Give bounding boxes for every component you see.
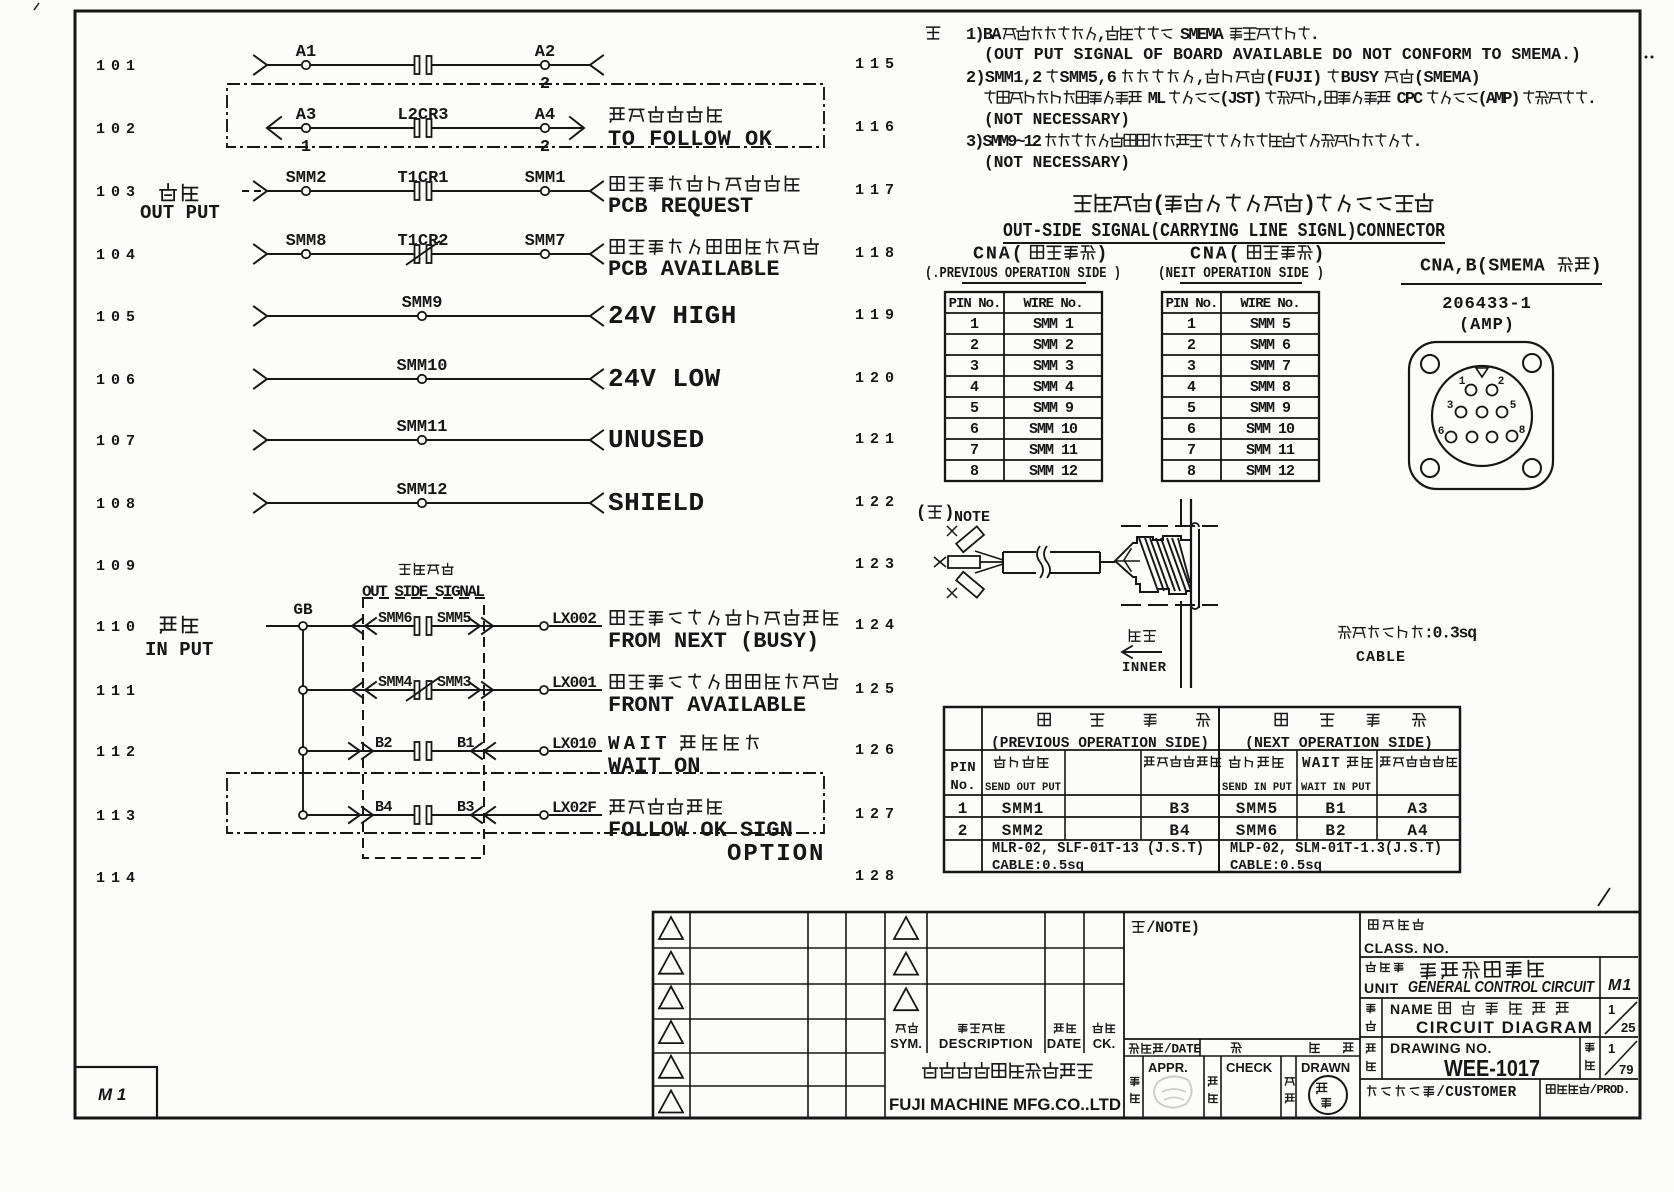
svg-text:FRONT AVAILABLE: FRONT AVAILABLE xyxy=(608,693,806,718)
svg-text:SMM 5: SMM 5 xyxy=(1250,316,1291,333)
svg-text:T1CR1: T1CR1 xyxy=(397,169,448,188)
svg-text:1 2 0: 1 2 0 xyxy=(855,370,894,387)
svg-text:WEE-1017: WEE-1017 xyxy=(1444,1055,1540,1081)
svg-text:UNIT: UNIT xyxy=(1364,980,1399,996)
connector 206433-1 body xyxy=(1409,342,1553,489)
heading CNA next xyxy=(1158,243,1326,283)
terminal SMM8 xyxy=(286,232,327,258)
label PCB REQUEST xyxy=(608,176,799,219)
svg-text:7: 7 xyxy=(1187,442,1196,459)
svg-text:7: 7 xyxy=(970,442,979,459)
svg-text:PIN No.: PIN No. xyxy=(1166,296,1218,312)
svg-text:A3: A3 xyxy=(1407,800,1428,818)
cable cone xyxy=(1115,543,1140,577)
svg-text:6: 6 xyxy=(1438,426,1445,438)
svg-text:CABLE:0.5sq: CABLE:0.5sq xyxy=(1230,858,1322,874)
svg-text:3)SMM9~12: 3)SMM9~12 xyxy=(966,133,1042,152)
svg-text:2: 2 xyxy=(1498,376,1505,388)
svg-text:(AMP): (AMP) xyxy=(1478,90,1519,109)
terminal A3 pin 1 xyxy=(296,106,316,157)
note 1 japanese xyxy=(966,26,1318,45)
approval stamps row xyxy=(1131,1056,1350,1118)
svg-text:(AMP): (AMP) xyxy=(1459,316,1515,335)
svg-text:(NEIT OPERATION SIDE ): (NEIT OPERATION SIDE ) xyxy=(1158,265,1324,282)
heading CNA previous xyxy=(925,243,1121,283)
terminal LX02F xyxy=(540,799,596,819)
stray mark xyxy=(1598,888,1610,906)
svg-text:1 1 4: 1 1 4 xyxy=(96,870,135,887)
revision table left xyxy=(653,912,885,1118)
note label (cable) xyxy=(916,505,990,527)
svg-text:1 1 8: 1 1 8 xyxy=(855,245,894,262)
out side signal dashed box xyxy=(363,598,484,858)
svg-text:2: 2 xyxy=(970,337,979,354)
svg-text:DESCRIPTION: DESCRIPTION xyxy=(939,1036,1033,1051)
svg-text:1 2 1: 1 2 1 xyxy=(855,431,894,448)
contact B2/B1 xyxy=(375,735,475,760)
wire row 107 xyxy=(254,431,603,450)
svg-text:SMM2: SMM2 xyxy=(286,169,327,188)
svg-text:,: , xyxy=(1097,26,1105,45)
svg-text:FROM NEXT (BUSY): FROM NEXT (BUSY) xyxy=(608,629,819,654)
svg-text:1 1 1: 1 1 1 xyxy=(96,683,135,700)
terminal SMM1 xyxy=(525,169,566,195)
svg-text:CABLE: CABLE xyxy=(1356,649,1406,666)
wire row 104 xyxy=(254,245,603,264)
heading CNA,B SMEMA xyxy=(1401,255,1602,284)
svg-text:1: 1 xyxy=(1459,376,1466,388)
svg-text:2: 2 xyxy=(540,138,550,157)
wire row 113 xyxy=(303,814,602,816)
svg-text:WAIT IN PUT: WAIT IN PUT xyxy=(1301,782,1371,794)
svg-text:(PREVIOUS OPERATION SIDE): (PREVIOUS OPERATION SIDE) xyxy=(991,735,1209,752)
bus node (row 113) xyxy=(299,811,307,819)
arrow left (row 102) xyxy=(267,117,281,139)
svg-text:PIN No.: PIN No. xyxy=(949,296,1001,312)
svg-text:GB: GB xyxy=(293,601,313,619)
terminal SMM7 xyxy=(525,232,566,258)
svg-text:1 1 9: 1 1 9 xyxy=(855,307,894,324)
svg-text:WAIT: WAIT xyxy=(608,733,671,755)
label INNER xyxy=(1122,630,1167,676)
table previous/next operation side xyxy=(944,707,1460,872)
label FROM NEXT (BUSY) xyxy=(608,610,838,654)
svg-text:SMM 9: SMM 9 xyxy=(1250,400,1291,417)
svg-text:1 0 1: 1 0 1 xyxy=(96,58,135,75)
svg-text:SMM 8: SMM 8 xyxy=(1250,379,1291,396)
label TO FOLLOW OK xyxy=(608,107,773,152)
svg-text:1 1 3: 1 1 3 xyxy=(96,808,135,825)
svg-text:OUT-SIDE SIGNAL(CARRYING LINE: OUT-SIDE SIGNAL(CARRYING LINE SIGNL)CONN… xyxy=(1003,220,1446,242)
svg-text:SYM.: SYM. xyxy=(890,1036,922,1051)
svg-text:SMM5,6: SMM5,6 xyxy=(1060,69,1117,88)
svg-text:SMM11: SMM11 xyxy=(396,418,447,437)
revision triangles left xyxy=(659,917,683,1113)
svg-text:PCB REQUEST: PCB REQUEST xyxy=(608,194,753,219)
svg-text:OPTION: OPTION xyxy=(727,841,825,868)
terminal SMM11 xyxy=(396,418,447,444)
bus node (row 110) xyxy=(299,622,307,630)
svg-text:1 2 8: 1 2 8 xyxy=(855,868,894,885)
svg-text:UNUSED: UNUSED xyxy=(608,425,705,455)
svg-text:5: 5 xyxy=(1510,400,1517,412)
stray pencil mark top-left xyxy=(34,3,39,10)
svg-text::0.3sq: :0.3sq xyxy=(1424,624,1476,643)
label cable 0.3sq xyxy=(1339,624,1477,666)
arrow right (row 102) xyxy=(570,117,584,139)
svg-text:SMM4: SMM4 xyxy=(378,674,413,691)
svg-text:SMM 7: SMM 7 xyxy=(1250,358,1290,375)
svg-text:DATE: DATE xyxy=(1047,1036,1082,1051)
svg-text:1 0 6: 1 0 6 xyxy=(96,372,135,389)
stamp drawn (hanko) xyxy=(1309,1076,1347,1114)
svg-text:CHECK: CHECK xyxy=(1226,1060,1273,1075)
svg-text:1 1 5: 1 1 5 xyxy=(855,56,894,73)
cable body xyxy=(1003,546,1115,578)
svg-text:SMM 11: SMM 11 xyxy=(1029,442,1078,459)
svg-text:B4: B4 xyxy=(1169,822,1190,840)
svg-text:CNA(: CNA( xyxy=(1190,243,1242,264)
svg-text:SMM6: SMM6 xyxy=(378,610,413,627)
svg-text:OUT SIDE SIGNAL: OUT SIDE SIGNAL xyxy=(362,583,484,601)
svg-text:8: 8 xyxy=(970,463,979,480)
node GB and vertical bus xyxy=(266,601,313,815)
svg-text:4: 4 xyxy=(1187,379,1196,396)
svg-text:SMM 11: SMM 11 xyxy=(1246,442,1295,459)
svg-text:B3: B3 xyxy=(457,799,475,816)
svg-text:A4: A4 xyxy=(535,106,555,125)
svg-text:CLASS. NO.: CLASS. NO. xyxy=(1364,940,1449,956)
svg-text:.: . xyxy=(1413,133,1421,152)
terminal A4 pin 2 xyxy=(535,106,555,157)
svg-text:/NOTE): /NOTE) xyxy=(1146,919,1199,937)
chevrons out (row 111) xyxy=(352,682,493,698)
svg-text:LX001: LX001 xyxy=(552,674,596,692)
svg-text:MLR-02, SLF-01T-13 (J.S.T): MLR-02, SLF-01T-13 (J.S.T) xyxy=(992,840,1204,857)
svg-text:CIRCUIT DIAGRAM: CIRCUIT DIAGRAM xyxy=(1416,1018,1593,1037)
svg-text:SMM 10: SMM 10 xyxy=(1246,421,1295,438)
revision triangles right xyxy=(894,917,918,1010)
svg-text:M 1: M 1 xyxy=(98,1085,126,1104)
panel wall xyxy=(1121,499,1218,688)
contact T1CR2 (NC) xyxy=(397,232,448,265)
label FRONT AVAILABLE xyxy=(608,674,838,718)
svg-text:B1: B1 xyxy=(1325,800,1346,818)
svg-text:1 2 7: 1 2 7 xyxy=(855,806,893,823)
svg-text:B4: B4 xyxy=(375,799,393,816)
svg-text:B3: B3 xyxy=(1169,800,1190,818)
svg-text:CABLE:0.5sq: CABLE:0.5sq xyxy=(992,858,1084,874)
svg-text:PCB AVAILABLE: PCB AVAILABLE xyxy=(608,257,780,282)
label PCB AVAILABLE xyxy=(608,239,818,282)
svg-text:5: 5 xyxy=(970,400,979,417)
svg-text:LX010: LX010 xyxy=(552,735,596,753)
svg-text:1: 1 xyxy=(301,138,311,157)
terminal LX010 xyxy=(540,735,596,755)
svg-text:SMM 10: SMM 10 xyxy=(1029,421,1078,438)
svg-text:1: 1 xyxy=(970,316,979,333)
svg-text:SMM9: SMM9 xyxy=(402,294,443,313)
svg-text:SMM7: SMM7 xyxy=(525,232,566,251)
svg-text:8: 8 xyxy=(1519,425,1526,437)
svg-text:.: . xyxy=(1310,26,1318,45)
terminal SMM12 xyxy=(396,481,447,507)
svg-text:NOTE: NOTE xyxy=(954,509,990,526)
svg-text:(NOT NECESSARY): (NOT NECESSARY) xyxy=(984,111,1130,130)
svg-text:1 0 7: 1 0 7 xyxy=(96,433,134,450)
cable crimp terminals xyxy=(934,526,1003,598)
svg-text:INNER: INNER xyxy=(1122,660,1167,676)
bus node (row 112) xyxy=(299,747,307,755)
svg-text:4: 4 xyxy=(970,379,979,396)
svg-text:3: 3 xyxy=(1187,358,1196,375)
svg-text:(OUT PUT SIGNAL OF BOARD AVAIL: (OUT PUT SIGNAL OF BOARD AVAILABLE DO NO… xyxy=(984,46,1581,65)
terminal LX001 xyxy=(540,674,596,694)
svg-text:SMM10: SMM10 xyxy=(396,357,447,376)
wire row 110 xyxy=(303,625,602,627)
company name xyxy=(889,1063,1121,1114)
svg-text:SMM 12: SMM 12 xyxy=(1246,463,1295,480)
svg-text:LX002: LX002 xyxy=(552,610,596,628)
drawing no row xyxy=(1360,1037,1638,1081)
table CNA previous side pin/wire xyxy=(945,292,1102,481)
svg-text:SEND IN PUT: SEND IN PUT xyxy=(1222,782,1292,794)
option dash-dot box (TO FOLLOW OK) xyxy=(227,84,824,147)
class no box xyxy=(1360,912,1638,1118)
svg-text:DRAWING NO.: DRAWING NO. xyxy=(1390,1040,1492,1056)
svg-text:FUJI MACHINE MFG.CO..LTD: FUJI MACHINE MFG.CO..LTD xyxy=(889,1095,1121,1114)
date row xyxy=(1124,1039,1360,1057)
svg-text:1 0 4: 1 0 4 xyxy=(96,247,135,264)
terminal SMM10 xyxy=(396,357,447,383)
svg-text:SMM12: SMM12 xyxy=(396,481,447,500)
svg-text:1 1 7: 1 1 7 xyxy=(855,182,893,199)
wire row 106 xyxy=(254,370,603,389)
wire row 102 (bidirectional) xyxy=(267,127,584,129)
note 2 japanese line 1 xyxy=(966,69,1480,88)
svg-text:PIN: PIN xyxy=(950,760,975,776)
label IN PUT (nyuryoku) xyxy=(145,617,213,661)
label OPTION xyxy=(727,841,825,868)
svg-text:SMM5: SMM5 xyxy=(437,610,472,627)
svg-text:A4: A4 xyxy=(1407,822,1428,840)
svg-text:1 1 2: 1 1 2 xyxy=(96,744,135,761)
title block outer xyxy=(653,912,1640,1118)
terminal SMM2 xyxy=(286,169,327,195)
svg-text:SMEMA: SMEMA xyxy=(1180,26,1225,45)
svg-text:SMM 9: SMM 9 xyxy=(1033,400,1074,417)
svg-text:(NEXT OPERATION SIDE): (NEXT OPERATION SIDE) xyxy=(1245,735,1433,752)
stamp appr (faint) xyxy=(1154,1076,1192,1107)
connector 206433-1 (AMP) label xyxy=(1442,295,1532,335)
svg-text:LX02F: LX02F xyxy=(552,799,596,817)
svg-text:1 0 8: 1 0 8 xyxy=(96,496,135,513)
svg-text:SMM2: SMM2 xyxy=(1002,822,1044,840)
stray dots xyxy=(1645,56,1654,59)
svg-text:1 2 5: 1 2 5 xyxy=(855,681,894,698)
svg-text:24V HIGH: 24V HIGH xyxy=(608,301,737,331)
svg-text:SMM8: SMM8 xyxy=(286,232,327,251)
svg-text:SMM3: SMM3 xyxy=(437,674,472,691)
wire row 103 xyxy=(242,182,603,201)
chevrons in (row 113) xyxy=(349,807,495,823)
svg-text:CNA(: CNA( xyxy=(973,243,1025,264)
svg-text:M1: M1 xyxy=(1608,977,1632,994)
option dash-dot box (FOLLOW OK SIGN) xyxy=(227,773,824,833)
svg-text:24V LOW: 24V LOW xyxy=(608,364,721,394)
svg-text:A1: A1 xyxy=(296,43,316,62)
label OUT SIDE SIGNAL xyxy=(362,563,484,601)
svg-text:5: 5 xyxy=(1187,400,1196,417)
contact SMM6/SMM5 xyxy=(378,610,472,635)
note heading mark xyxy=(927,27,940,39)
svg-text:206433-1: 206433-1 xyxy=(1442,295,1532,314)
svg-text:(NOT NECESSARY): (NOT NECESSARY) xyxy=(984,154,1130,173)
svg-text:2)SMM1,2: 2)SMM1,2 xyxy=(966,69,1042,88)
heading connector detail japanese xyxy=(1074,192,1432,218)
svg-text:,: , xyxy=(1196,69,1205,88)
connector pins 1-8 xyxy=(1438,376,1526,443)
bus node (row 111) xyxy=(299,686,307,694)
svg-text:WIRE No.: WIRE No. xyxy=(1240,296,1299,312)
svg-text:1: 1 xyxy=(958,800,969,818)
svg-text:1 1 6: 1 1 6 xyxy=(855,119,894,136)
wire row 105 xyxy=(254,307,603,326)
table CNA next side pin/wire xyxy=(1162,292,1319,481)
table footer connector types xyxy=(992,840,1442,874)
revision header row xyxy=(890,1023,1115,1051)
line numbers 101-114 xyxy=(96,58,135,887)
svg-text:1 2 3: 1 2 3 xyxy=(855,556,894,573)
svg-text:CNA,B(SMEMA: CNA,B(SMEMA xyxy=(1420,255,1546,276)
svg-text:B2: B2 xyxy=(1325,822,1346,840)
chevrons out (row 110) xyxy=(352,618,493,634)
svg-text:B2: B2 xyxy=(375,735,393,752)
label UNUSED xyxy=(608,425,705,455)
svg-text:CPC: CPC xyxy=(1397,90,1423,109)
contact L2CR3 xyxy=(397,106,448,137)
contact B4/B3 xyxy=(375,799,475,824)
svg-text:(JST): (JST) xyxy=(1219,90,1260,109)
svg-text:SHIELD: SHIELD xyxy=(608,488,705,518)
terminal A2 pin 2 xyxy=(535,43,555,94)
cable strain relief boot xyxy=(1133,536,1191,594)
svg-text:SMM6: SMM6 xyxy=(1236,822,1278,840)
note 2 english xyxy=(984,111,1130,130)
svg-text:TO FOLLOW OK: TO FOLLOW OK xyxy=(608,127,773,152)
note 2 japanese line 2 xyxy=(985,90,1595,109)
contact (row 101) xyxy=(415,56,432,74)
svg-text:SMM1: SMM1 xyxy=(1002,800,1044,818)
svg-text:DRAWN: DRAWN xyxy=(1301,1060,1350,1075)
svg-text:SEND OUT PUT: SEND OUT PUT xyxy=(985,782,1061,794)
label FOLLOW OK SIGN xyxy=(608,799,793,843)
table headers japanese xyxy=(950,714,1456,795)
svg-text:OUT PUT: OUT PUT xyxy=(140,202,220,224)
svg-text:WIRE No.: WIRE No. xyxy=(1023,296,1082,312)
svg-text:2: 2 xyxy=(1187,337,1196,354)
svg-text:SMM 1: SMM 1 xyxy=(1033,316,1074,333)
customer row xyxy=(1368,1079,1630,1118)
svg-text:3: 3 xyxy=(1447,400,1454,412)
terminal SMM9 xyxy=(402,294,443,320)
contact SMM4/SMM3 xyxy=(378,674,472,701)
note 1 english xyxy=(984,46,1581,65)
svg-text:SMM 4: SMM 4 xyxy=(1033,379,1074,396)
svg-text:WAIT: WAIT xyxy=(1302,756,1341,772)
svg-text:ML: ML xyxy=(1148,90,1166,109)
svg-text:1 2 4: 1 2 4 xyxy=(855,617,894,634)
svg-text:WAIT ON: WAIT ON xyxy=(608,754,700,779)
label WAIT ON xyxy=(608,733,758,779)
label OUT PUT (shutsuryoku) xyxy=(140,184,220,224)
svg-text:SMM1: SMM1 xyxy=(525,169,566,188)
chevrons in (row 112) xyxy=(349,743,495,759)
svg-text:3: 3 xyxy=(970,358,979,375)
svg-text:8: 8 xyxy=(1187,463,1196,480)
svg-text:APPR.: APPR. xyxy=(1148,1060,1188,1075)
svg-text:SMM 12: SMM 12 xyxy=(1029,463,1078,480)
svg-text:1: 1 xyxy=(1187,316,1196,333)
svg-text:SMM 6: SMM 6 xyxy=(1250,337,1291,354)
label SHIELD xyxy=(608,488,705,518)
note 3 english xyxy=(984,154,1130,173)
svg-text:): ) xyxy=(1096,243,1109,264)
svg-text:1 0 5: 1 0 5 xyxy=(96,309,135,326)
terminal A1 xyxy=(296,43,316,69)
svg-text:79: 79 xyxy=(1619,1062,1633,1077)
svg-text:BUSY: BUSY xyxy=(1341,69,1380,88)
svg-text:1 2 2: 1 2 2 xyxy=(855,494,894,511)
svg-text:SMM 3: SMM 3 xyxy=(1033,358,1074,375)
svg-text:1 2 6: 1 2 6 xyxy=(855,742,894,759)
svg-text:T1CR2: T1CR2 xyxy=(397,232,448,251)
table data rows xyxy=(958,800,1429,840)
svg-text:/CUSTOMER: /CUSTOMER xyxy=(1436,1085,1516,1101)
svg-text:/DATE: /DATE xyxy=(1164,1042,1201,1057)
svg-text:(FUJI): (FUJI) xyxy=(1265,69,1322,88)
svg-text:): ) xyxy=(1313,243,1326,264)
svg-text:FOLLOW OK SIGN: FOLLOW OK SIGN xyxy=(608,818,793,843)
svg-text:1 0 2: 1 0 2 xyxy=(96,121,135,138)
label 24V HIGH xyxy=(608,301,737,331)
svg-text:1: 1 xyxy=(1608,1041,1615,1056)
label 24V LOW xyxy=(608,364,721,394)
svg-text:A2: A2 xyxy=(535,43,555,62)
svg-text:(: ( xyxy=(916,505,928,524)
svg-text:1 0 3: 1 0 3 xyxy=(96,184,135,201)
svg-text:(SMEMA): (SMEMA) xyxy=(1414,69,1480,88)
svg-text:A3: A3 xyxy=(296,106,316,125)
svg-text:.: . xyxy=(1587,90,1595,109)
svg-text:/PROD.: /PROD. xyxy=(1590,1083,1630,1097)
svg-text:MLP-02, SLM-01T-1.3(J.S.T): MLP-02, SLM-01T-1.3(J.S.T) xyxy=(1230,840,1442,857)
svg-text:1: 1 xyxy=(1608,1002,1615,1017)
svg-text:(.PREVIOUS OPERATION SIDE ): (.PREVIOUS OPERATION SIDE ) xyxy=(925,265,1121,282)
svg-text:25: 25 xyxy=(1621,1020,1635,1035)
svg-text:NAME: NAME xyxy=(1390,1001,1433,1017)
wire row 111 xyxy=(303,689,602,691)
svg-text:6: 6 xyxy=(970,421,979,438)
sheet code box M1 xyxy=(75,1067,157,1118)
wire row 108 xyxy=(254,494,603,513)
terminal LX002 xyxy=(540,610,596,630)
revision table right xyxy=(885,912,1124,1053)
svg-text:1 0 9: 1 0 9 xyxy=(96,558,135,575)
svg-text:2: 2 xyxy=(958,822,969,840)
heading connector detail english xyxy=(1003,220,1446,243)
svg-text:): ) xyxy=(1591,255,1602,276)
